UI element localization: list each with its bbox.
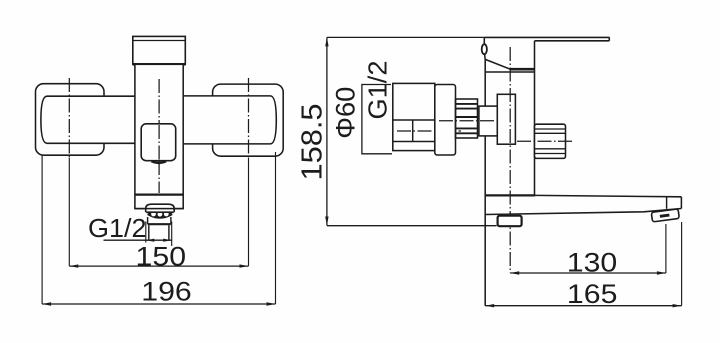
G1/2 arrow right bbox=[163, 239, 172, 242]
knurled nut C bbox=[456, 99, 478, 138]
G1/2 extension lines bbox=[145, 222, 147, 243]
left arm centerline bbox=[68, 78, 70, 158]
150 arrow right bbox=[240, 264, 249, 267]
130 arrow right bbox=[657, 271, 666, 274]
right arm centerline bbox=[248, 78, 250, 158]
158.5 arrow top bbox=[325, 37, 328, 46]
G1/2 dimension line bbox=[104, 239, 172, 241]
temperature knob F bbox=[535, 124, 566, 158]
eccentric union block A bbox=[393, 83, 435, 150]
block A inlet channel bottom bbox=[393, 141, 435, 143]
body front edge (side view) bbox=[484, 60, 486, 306]
165 arrow left bbox=[485, 304, 494, 307]
dark lever slot under square bbox=[152, 161, 167, 163]
shower outlet (side view) bbox=[498, 216, 522, 227]
handle lever top (side view) bbox=[484, 36, 609, 38]
196 dimension line bbox=[42, 303, 275, 305]
G1/2 arrow left bbox=[146, 239, 155, 242]
svg-text:150: 150 bbox=[136, 241, 187, 271]
body bottom thick line bbox=[135, 193, 183, 195]
outlet nut white scallops bbox=[151, 212, 156, 217]
cap lower left edge bbox=[484, 54, 487, 59]
aerator insert bbox=[651, 209, 679, 222]
svg-text:196: 196 bbox=[141, 277, 192, 307]
knob F top rib bbox=[535, 128, 566, 130]
right arm bbox=[183, 96, 276, 144]
150 arrow left bbox=[69, 264, 78, 267]
body back edge (side view) bbox=[534, 41, 536, 196]
spout bottom edge bbox=[485, 209, 682, 215]
outlet nut dark almond band bbox=[147, 212, 172, 219]
158.5 top extension line bbox=[327, 36, 484, 38]
knob F bottom rib bbox=[535, 148, 566, 150]
handle lever bottom bbox=[535, 40, 610, 42]
left wall flange bbox=[36, 84, 105, 156]
decorative square plate on body bbox=[141, 124, 176, 161]
svg-text:G1/2: G1/2 bbox=[363, 61, 393, 120]
connection axis centerline bbox=[439, 120, 509, 122]
cap slanted front bbox=[486, 60, 511, 70]
svg-text:158.5: 158.5 bbox=[297, 104, 329, 181]
handle cap left edge bbox=[483, 37, 485, 45]
body centerline bbox=[158, 79, 160, 193]
spacer D bbox=[479, 106, 497, 136]
handle inner top line bbox=[133, 40, 186, 42]
svg-text:130: 130 bbox=[567, 247, 618, 277]
spout inner line bbox=[666, 197, 668, 209]
spout top edge bbox=[535, 195, 681, 196]
handle lever tip bbox=[608, 37, 610, 40]
130 dimension right extension bbox=[665, 224, 667, 273]
150 dimension line bbox=[69, 265, 248, 267]
165 dimension right extension bbox=[681, 222, 683, 306]
158.5 arrow bottom bbox=[325, 217, 328, 226]
inlet pipe centerline bbox=[397, 130, 461, 132]
phi60 bracket bottom tick bbox=[362, 153, 392, 155]
hub slab E bbox=[497, 94, 515, 144]
faucet body (front view) bbox=[135, 64, 183, 208]
165 dimension line bbox=[485, 305, 681, 307]
block A inner vertical bbox=[412, 120, 414, 142]
196 extension line right bbox=[275, 152, 277, 304]
196 extension line left bbox=[41, 156, 43, 305]
handle (front view) bbox=[133, 36, 186, 64]
handle bottom thick line bbox=[133, 63, 186, 66]
wall escutcheon disc B bbox=[435, 85, 456, 156]
block A inlet channel top bbox=[393, 119, 435, 121]
spout end face bbox=[680, 197, 682, 209]
knob F axis centerline bbox=[517, 140, 573, 142]
svg-text:G1/2: G1/2 bbox=[88, 213, 147, 243]
svg-text:165: 165 bbox=[567, 279, 618, 309]
130 arrow left bbox=[510, 271, 519, 274]
body top edge bbox=[485, 71, 534, 73]
svg-text:Φ60: Φ60 bbox=[331, 87, 361, 139]
nut C ribs bbox=[456, 103, 478, 105]
150 extension line right bbox=[248, 158, 250, 266]
165 arrow right bbox=[673, 304, 682, 307]
cap base thick line bbox=[510, 68, 535, 71]
outlet nut bottom dark bar bbox=[148, 223, 171, 225]
body bottom plate lines bbox=[135, 208, 145, 210]
outlet dome chord overline bbox=[147, 211, 173, 213]
left arm bbox=[41, 96, 135, 143]
150 extension line left bbox=[68, 158, 70, 266]
196 arrow left bbox=[42, 302, 51, 305]
outlet dome cap bbox=[146, 204, 175, 212]
centerline inside square bbox=[158, 125, 160, 160]
phi60 bracket vertical bbox=[361, 84, 363, 155]
outlet pipe stub bbox=[148, 225, 150, 239]
158.5 bottom extension line bbox=[327, 225, 497, 227]
set screw oval bbox=[482, 44, 487, 54]
outlet nut side edges bbox=[147, 217, 149, 224]
phi60 bracket top tick bbox=[362, 84, 391, 86]
130 dimension line bbox=[510, 272, 666, 274]
right wall flange bbox=[213, 84, 284, 156]
158.5 dimension line (vertical) bbox=[326, 37, 328, 225]
outlet dome chord line bbox=[146, 211, 174, 213]
body bottom thick line (side view) bbox=[485, 194, 535, 196]
body centerline (side view) bbox=[509, 47, 511, 273]
196 arrow right bbox=[267, 302, 276, 305]
